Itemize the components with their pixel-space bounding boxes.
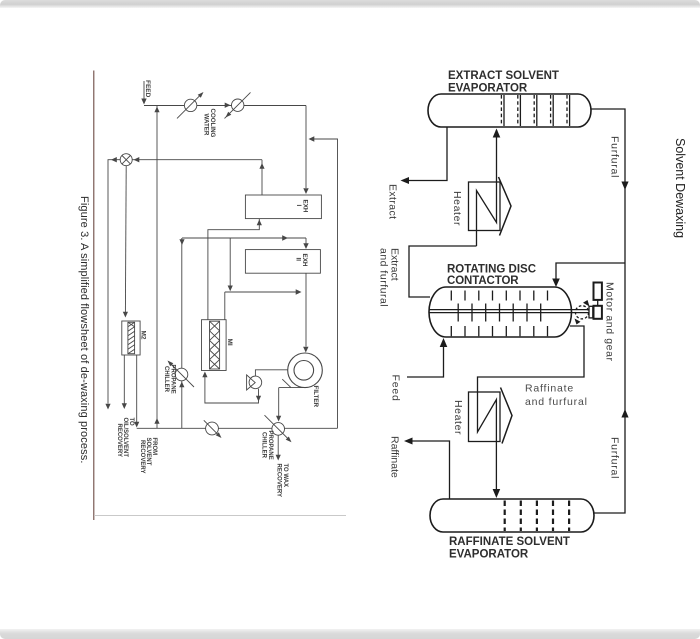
wire: chiller CH2 outlet to wax recovery [277,435,279,455]
heater H2 coil and outlet pipe to vessel V3 [478,392,497,490]
gear rotation arrow top [583,300,590,307]
arrow down on furfural line (top) [621,182,628,191]
svg-text:and furfural: and furfural [525,396,588,408]
wire: furfural main recycle line (right side) [591,109,625,513]
gear rotation arrow bottom [575,319,581,325]
filter F outer circle [288,353,323,388]
svg-text:WATER: WATER [203,114,210,136]
wire: down to MI top left [207,238,209,320]
EXH II box [245,250,320,274]
svg-text:Raffinate: Raffinate [389,436,401,478]
wire: extract outlet [408,127,447,181]
vessel MI hatch [210,321,220,369]
svg-text:EVAPORATOR: EVAPORATOR [448,83,528,95]
svg-text:Feed: Feed [390,375,402,402]
coupling bar [589,306,593,318]
mixer M circle with X [120,154,132,166]
wire: main feed line [144,105,306,107]
vessel MI shell [202,320,227,371]
svg-text:TO WAX: TO WAX [282,464,288,488]
svg-text:RECOVERY: RECOVERY [116,424,122,457]
gear: dashed rotation circle [575,306,588,319]
svg-text:RECOVERY: RECOVERY [276,464,282,497]
svg-text:RECOVERY: RECOVERY [139,440,145,473]
pump P1 circle [249,376,262,389]
title: raffinate solvent evaporator [449,536,570,561]
svg-text:PROPANE: PROPANE [170,365,176,394]
arrow up on furfural line (bottom) [621,409,628,418]
vessel V2 rotor discs top row [451,291,547,301]
arrow up into vessel V1 [493,129,501,138]
wire: mixer right line from EXH I [132,159,262,161]
chiller CH1 circle [175,368,188,381]
chiller CH2 circle [272,423,285,436]
svg-text:Raffinate: Raffinate [525,383,574,395]
wire: MI bottom loop to pump [205,377,259,403]
wire: solvent recycle riser [156,106,158,429]
arrow on feed line into cooler C2 [225,103,231,108]
pump P1 cone [247,375,256,390]
svg-text:M2: M2 [140,331,147,340]
arrow into contactor top [552,279,560,288]
wire: intermediate header y238 [182,237,306,239]
svg-text:EXTRACT SOLVENT: EXTRACT SOLVENT [448,70,559,82]
wire: raffinate outlet [411,441,450,499]
cooler C1 circle [184,99,196,111]
cooler C2 circle [232,99,244,111]
heater H1 box [469,182,501,231]
vessel V1 tray lines [501,95,567,126]
wire: mixer left branch down [108,160,120,404]
filter F bottom outlet scroll [279,379,308,416]
EXH I box [245,195,321,219]
wire: M2 right outlet to recycle header [136,355,138,423]
wire: pump to filter [255,370,287,376]
vessel V3 tray lines [505,501,569,532]
svg-text:MI: MI [226,339,233,346]
valve circle VX on recycle header [206,422,219,435]
wire: raffinate and furfural line from contactor to heater H2 [478,326,585,392]
label raffinate and furfural [525,383,588,409]
wire: extract and furfural line from contactor to heater H1 [409,246,477,297]
wire: EXH I bottom jog [208,219,259,238]
heater H1 coil and outlet pipe to vessel V1 [477,130,497,246]
vessel M2 hatch [128,322,135,353]
svg-text:CHILLER: CHILLER [163,366,169,393]
wire: recycle right riser [310,139,338,428]
wire: EXH II bottom to filter [305,273,307,346]
wire: mixer bottom branch to M2 [124,166,127,313]
svg-text:and furfural: and furfural [378,248,390,307]
wire: feed line into contactor [407,347,444,377]
svg-text:ROTATING DISC: ROTATING DISC [447,264,536,276]
wire: M2 left outlet to oil/solvent recovery [123,355,125,404]
arrow extract (left) [401,177,410,184]
svg-text:RAFFINATE SOLVENT: RAFFINATE SOLVENT [449,536,570,548]
heater H2 box [469,392,501,442]
cooler C2 diagonal with arrow [225,92,251,118]
vessel V2 rotor discs bottom row [451,326,547,336]
wire: feed inlet arrow [143,81,145,99]
svg-text:PROPANE: PROPANE [267,431,273,460]
svg-text:Figure 3. A simplified flowshe: Figure 3. A simplified flowsheet of de-w… [78,196,90,464]
wire: cross header y292 [225,291,299,293]
vessel V3 raffinate solvent evaporator shell [430,499,594,532]
vessel V2 rotating disc contactor shell [429,287,572,337]
svg-text:CONTACTOR: CONTACTOR [447,275,519,287]
junction arrow: solvent recycle joins feed [154,107,159,113]
motor body upper [594,283,602,300]
wire: into EXH II top [305,238,307,244]
svg-text:Heater: Heater [452,400,464,435]
vessel M2 shell [122,321,140,355]
cooler C1 diagonal with arrow [177,93,203,119]
svg-text:Furfural: Furfural [609,437,621,479]
wire: down to MI top right [224,292,226,320]
faint page fold line [94,515,346,517]
vessel V2 shaft [429,310,589,313]
wire: branch down to filter feed cross [229,238,231,289]
svg-text:EVAPORATOR: EVAPORATOR [449,549,529,561]
filter F inner circle [294,361,314,381]
wire: riser from EXH I top to mixer line [261,160,263,195]
svg-text:Extract: Extract [387,184,399,219]
svg-text:Solvent Dewaxing: Solvent Dewaxing [673,138,687,238]
svg-text:Heater: Heater [451,191,463,226]
svg-text:CHILLER: CHILLER [260,432,266,459]
wire: feed drop to EXH I [305,106,307,189]
heater H1 chevron [499,177,512,236]
svg-text:Motor and gear: Motor and gear [604,282,616,362]
motor connector [597,300,599,306]
arrow down into vessel V3 [493,489,501,498]
svg-text:II: II [295,258,302,262]
title: extract solvent evaporator [448,70,559,95]
wire: recycle header (bottom horizontal) [137,427,338,429]
svg-text:Furfural: Furfural [609,136,621,178]
wire: furfural branch into contactor top [556,263,625,281]
page edge line [93,71,95,521]
wire: vertical through chiller CH1 [181,238,183,428]
heater H2 chevron [501,388,513,444]
svg-text:I: I [295,205,302,207]
title: rotating disc contactor [447,264,536,288]
vessel V2 rotor discs middle row [458,304,541,322]
arrow raffinate (left) [404,438,413,445]
svg-text:FILTER: FILTER [312,386,319,408]
vessel V1 extract solvent evaporator shell [428,94,591,127]
svg-text:FEED: FEED [144,80,151,98]
arrow feed up into contactor [440,338,448,347]
motor body lower [594,306,602,319]
